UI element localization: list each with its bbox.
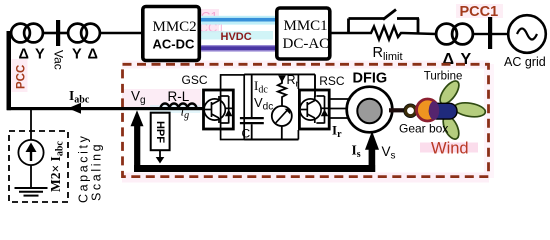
Vac bus bar	[56, 20, 60, 46]
turbine blade upper	[437, 78, 463, 107]
machine DFIG rotor	[357, 99, 381, 123]
highlight pink glow bottom dashed edge	[122, 173, 489, 183]
svg-text:Y: Y	[35, 47, 45, 63]
svg-text:MMC2: MMC2	[153, 19, 197, 35]
svg-text:Capacity: Capacity	[77, 134, 91, 203]
HVDC positive pole cyan glow	[201, 16, 277, 25]
scaled current source dashed box	[9, 131, 68, 202]
ground	[15, 188, 48, 196]
svg-text:C: C	[242, 127, 251, 141]
current source arrow	[30, 149, 32, 161]
highlight pink behind PCC1	[456, 4, 503, 18]
svg-text:HPF: HPF	[154, 121, 166, 143]
AC grid sine symbol	[517, 29, 537, 40]
resistor Rlimit zigzag	[368, 27, 403, 40]
svg-text:AC-DC: AC-DC	[153, 37, 195, 52]
inductor R-L coil	[161, 104, 197, 109]
HVDC negative pole line	[201, 46, 277, 50]
transformer T2	[68, 24, 100, 43]
rotor wires RSC to DFIG	[331, 99, 351, 118]
svg-text:MMC1: MMC1	[284, 18, 328, 34]
svg-text:R-L: R-L	[168, 89, 190, 104]
machine DFIG stator	[347, 87, 393, 133]
turbine hub	[430, 103, 458, 119]
svg-text:Y: Y	[72, 47, 82, 63]
switch S1 right contact	[397, 17, 419, 20]
svg-text:Gear box: Gear box	[399, 122, 448, 136]
svg-text:Wind: Wind	[431, 140, 469, 158]
Vs measurement arrow	[365, 131, 379, 150]
bus PCC1 bar	[488, 17, 492, 49]
switch S1 blade	[383, 10, 396, 20]
converter RSC box	[299, 90, 329, 129]
converter MMC2 box	[143, 7, 200, 61]
shaft DFIG to gearbox	[389, 108, 407, 112]
highlight pink behind Wind	[420, 143, 478, 153]
arrow on Iabc wire	[68, 103, 81, 114]
highlight pink glow top dashed edge	[122, 61, 489, 69]
turbine blade lower	[440, 114, 462, 142]
wire T3 to PCC1 bus	[473, 33, 488, 35]
Vg measurement arrow	[131, 110, 144, 126]
converter GSC box	[204, 90, 234, 129]
capacitor C plates	[240, 117, 264, 119]
wire T2 to MMC2	[100, 32, 141, 35]
svg-text:Δ: Δ	[88, 47, 98, 63]
svg-text:HVDC: HVDC	[221, 31, 252, 43]
svg-text:Turbine: Turbine	[424, 71, 463, 83]
svg-text:PCC1: PCC1	[460, 4, 499, 20]
switch S1 left contact	[349, 17, 385, 20]
svg-text:DFIG: DFIG	[353, 71, 388, 87]
transformer T3	[436, 24, 473, 45]
svg-text:DC-AC: DC-AC	[283, 36, 330, 52]
highlight pink glow right dashed edge	[484, 64, 494, 178]
gearbox gear circle	[417, 99, 439, 121]
HVDC positive pole line	[201, 18, 277, 22]
gearbox small ring	[404, 104, 417, 117]
wire T1 to Vac bus	[43, 32, 56, 35]
AC grid source	[508, 15, 546, 53]
wire source to ground	[30, 165, 32, 188]
thick measurement bus horizontal	[134, 165, 375, 172]
DC link RSC drop	[314, 74, 316, 97]
wind farm model boundary red dashed box	[123, 64, 489, 176]
DC link top rail	[244, 73, 315, 75]
wire drop to current source	[30, 109, 32, 140]
current source M2 x Iabc	[18, 140, 43, 165]
wire PCC1 bus to AC grid	[492, 33, 508, 35]
svg-text:RSC: RSC	[319, 74, 345, 88]
DC link bottom rail	[244, 139, 298, 141]
PCC vertical bus	[7, 31, 12, 110]
transformer T1	[11, 24, 43, 43]
capacitor C branch top	[251, 74, 253, 117]
HVDC negative pole glow	[201, 45, 277, 52]
highlight band cyan near coil	[150, 105, 200, 113]
wire coil to GSC	[197, 107, 204, 109]
svg-text:Scaling: Scaling	[90, 142, 104, 201]
svg-text:AC grid: AC grid	[504, 55, 546, 69]
chopper branch bottom	[281, 126, 283, 139]
wire Vac bus to T2	[60, 32, 68, 35]
RSC diode	[321, 107, 329, 109]
HPF output arrow	[159, 150, 161, 157]
converter MMC1 box	[277, 8, 330, 59]
ghost highlight pink PCC1	[181, 9, 219, 33]
svg-text:PCC: PCC	[16, 65, 28, 89]
highlight pink behind PCC label	[12, 59, 28, 92]
chopper switch circle	[272, 106, 292, 126]
highlight band pink row	[122, 89, 201, 107]
capacitor C branch bottom	[251, 124, 253, 139]
HPF block	[151, 113, 170, 151]
highlight cyan HVDC band	[187, 31, 273, 40]
GSC IGBT symbol	[204, 96, 229, 124]
wire Iabc main horizontal	[7, 107, 203, 110]
svg-text:Vac: Vac	[52, 50, 66, 70]
GSC diode	[225, 107, 233, 109]
svg-text:GSC: GSC	[182, 73, 208, 87]
svg-text:Δ: Δ	[19, 47, 29, 63]
DC link RSC top stub	[297, 74, 299, 89]
thick measurement bus vertical right	[369, 149, 376, 172]
gearbox purple crescent	[429, 101, 439, 120]
chopper branch arrow	[278, 76, 286, 83]
highlight cyan square	[188, 32, 195, 40]
turbine blade right	[453, 101, 486, 119]
wire MMC1 to resistor	[330, 32, 368, 35]
wire resistor to T3	[403, 33, 436, 34]
switch branch left riser	[347, 19, 350, 34]
RSC IGBT symbol	[300, 96, 325, 124]
switch branch right riser	[417, 19, 420, 34]
DC link RSC bottom stub	[297, 130, 299, 140]
chopper resistor Rr zigzag	[278, 81, 286, 106]
GSC thin rect	[221, 75, 245, 140]
thick measurement bus vertical left	[134, 124, 140, 172]
